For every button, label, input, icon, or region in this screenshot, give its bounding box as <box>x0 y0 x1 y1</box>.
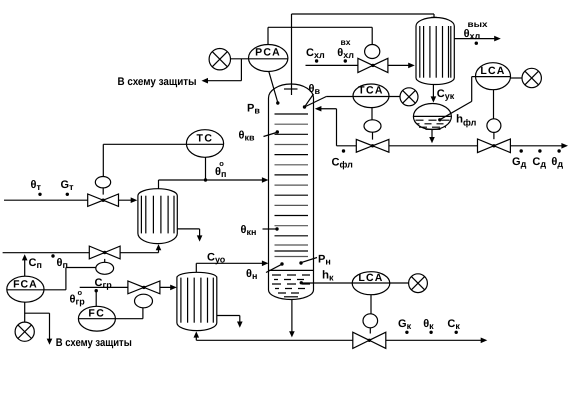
svg-text:ТС: ТС <box>197 133 214 145</box>
wire actuator link <box>102 188 104 195</box>
svg-text:FC: FC <box>88 308 105 320</box>
wire column bottom outlet <box>289 300 295 338</box>
valve Схл (cooling water) <box>358 58 388 72</box>
node dots under theta-т and Gт <box>38 193 69 196</box>
wire FCA output to feed valve actuator <box>44 268 96 290</box>
node Pn dot with leader <box>299 258 317 265</box>
node dot under theta-хл <box>344 59 347 62</box>
instrument TCA (temperature controller bubble) <box>353 84 389 108</box>
wire actuator link <box>369 328 371 334</box>
condenser (overhead heat exchanger) <box>416 18 454 85</box>
column K1 bottom liquid level <box>269 270 313 296</box>
svg-text:LCA: LCA <box>480 65 505 77</box>
wire upper LCA stem to valve actuator <box>493 90 495 119</box>
svg-text:Сп: Сп <box>29 257 42 270</box>
svg-text:о: о <box>219 159 224 168</box>
node theta-kv dot with leader <box>264 130 279 136</box>
actuator of cooling-water valve <box>365 45 380 59</box>
valve Gд (distillate product) <box>478 139 511 153</box>
node dot under вых theta-хл <box>475 42 478 45</box>
valve Gк (bottoms product) <box>353 332 386 348</box>
svg-text:θкн: θкн <box>241 224 257 237</box>
valve theta-т (hot stream) <box>88 194 119 206</box>
svg-text:LCA: LCA <box>358 272 383 284</box>
wire to protection circuit (top) <box>202 59 242 84</box>
wire T1 right drain <box>177 229 202 242</box>
wire reflux return into column <box>315 106 337 146</box>
svg-text:Суо: Суо <box>207 252 226 265</box>
svg-text:Сгр: Сгр <box>95 277 113 290</box>
alarm lamp near FCA <box>15 322 34 341</box>
alarm lamp near TCA <box>400 88 418 106</box>
wire TC measurement stem to feed line <box>205 157 207 180</box>
valve Сп (feed) <box>89 246 120 259</box>
wire preheated feed from T1 top to column <box>159 177 269 189</box>
node hk dot (bottom level tap) <box>300 281 303 284</box>
wire TCA measurement line to theta-v tap <box>306 97 402 107</box>
alarm lamp near bottom LCA <box>409 274 428 293</box>
actuator of distillate valve <box>487 119 501 133</box>
svg-text:Gт: Gт <box>61 179 75 192</box>
wire PCA to Pv tap (diagonal) <box>269 71 278 101</box>
valve Сфл (reflux) <box>356 139 389 152</box>
svg-text:θк: θк <box>423 318 434 331</box>
column K1 (distillation column shell) <box>269 84 314 300</box>
wire bottoms line (column bottom to product) <box>194 331 488 343</box>
wire FCA down to lamp and protection <box>25 302 53 345</box>
instrument FCA (feed flow controller bubble) <box>7 276 44 302</box>
svg-text:Сфл: Сфл <box>332 157 354 170</box>
svg-text:θн: θн <box>246 268 257 281</box>
svg-text:Gд: Gд <box>512 156 527 169</box>
wire upper LCA to drum level tap <box>441 77 476 120</box>
wire T2 right drain <box>217 316 243 328</box>
actuator of heating valve (below) <box>135 294 153 308</box>
svg-text:θв: θв <box>309 83 321 96</box>
wire TC output to hot-stream valve actuator <box>103 144 186 176</box>
heat exchanger T1 (feed preheater) <box>138 189 177 244</box>
wire feed line Сп <box>3 244 162 253</box>
svg-text:θт: θт <box>31 179 42 192</box>
actuator of reflux valve <box>364 120 381 132</box>
instrument LCA (bottom level controller bubble) <box>301 272 409 295</box>
reflux drum (horizontal accumulator) <box>413 104 451 130</box>
instrument LCA (drum level controller bubble) <box>476 63 511 90</box>
node dot before theta-п <box>51 254 54 257</box>
wire overhead vapor line from column top to condenser <box>284 14 437 95</box>
wire heating stream line Сгр <box>80 285 177 291</box>
svg-text:θд: θд <box>551 156 563 169</box>
wire actuator link <box>493 132 495 139</box>
wire condenser bottom outlet Сук <box>431 85 437 103</box>
wire cooling water line Схл <box>306 63 415 69</box>
svg-text:Сд: Сд <box>532 156 546 169</box>
svg-text:В схему защиты: В схему защиты <box>56 337 132 349</box>
node dot under Схл <box>315 59 318 62</box>
svg-text:θхл: θхл <box>337 47 354 60</box>
wire upper LCA lamp link <box>510 77 522 79</box>
wire bottom LCA stem to valve actuator <box>370 295 372 314</box>
svg-text:FCA: FCA <box>13 279 38 291</box>
svg-text:hфл: hфл <box>456 114 477 128</box>
svg-text:Ск: Ск <box>447 318 460 331</box>
heat exchanger T2 (reboiler Суо) <box>177 272 217 330</box>
actuator of hot-stream valve <box>95 177 110 188</box>
svg-text:ТСА: ТСА <box>358 85 384 97</box>
actuator of bottoms valve <box>363 314 378 328</box>
node dots Gд Сд θд <box>520 149 561 152</box>
node junction dot TC on feed line <box>204 178 207 181</box>
wire drum outlet down to product line <box>429 130 435 143</box>
svg-text:о: о <box>78 288 83 297</box>
svg-text:Gк: Gк <box>398 318 412 331</box>
svg-text:hк: hк <box>322 270 334 283</box>
wire hot stream line theta-т <box>4 197 137 203</box>
wire actuator link <box>104 259 106 262</box>
svg-text:вых: вых <box>468 19 488 29</box>
svg-text:θхл: θхл <box>464 28 481 41</box>
wire actuator link <box>372 132 374 139</box>
node hfl dot (drum level tap) <box>438 118 441 121</box>
wire distillate/reflux product line <box>337 143 569 149</box>
wire PCA output to cooling-water valve <box>268 27 372 44</box>
alarm lamp near PCA <box>209 49 230 70</box>
valve Сгр (heating stream) <box>128 281 160 294</box>
wire FC measurement tap to Сгр line <box>95 289 98 306</box>
wire cooled vapor outlet вых <box>454 36 501 42</box>
column K1 trays <box>275 114 309 257</box>
wire reboiler vapor return Суо to column <box>196 261 268 273</box>
svg-text:Схл: Схл <box>306 47 325 60</box>
node theta-kn dot with leader <box>263 227 279 230</box>
svg-text:Рн: Рн <box>318 254 331 267</box>
svg-text:РСА: РСА <box>255 47 281 59</box>
alarm lamp near upper LCA <box>522 68 541 87</box>
svg-text:В схему защиты: В схему защиты <box>118 76 197 88</box>
actuator of feed valve (below) <box>96 262 114 274</box>
instrument PCA (pressure controller bubble) <box>231 45 288 72</box>
wire FC output to heating valve actuator <box>115 308 142 319</box>
svg-text:Рв: Рв <box>247 103 260 116</box>
node dot Сфл <box>342 149 345 152</box>
svg-text:Сук: Сук <box>437 88 455 101</box>
svg-text:вх: вх <box>341 37 351 47</box>
instrument FC (heating flow controller bubble) <box>78 306 115 331</box>
wire FCA measurement up to feed line <box>22 254 28 276</box>
wire TCA stem to valve actuator <box>371 107 373 120</box>
node dots Gк θк Ск <box>405 331 458 334</box>
instrument TC (feed temperature controller bubble) <box>186 130 223 158</box>
svg-text:θкв: θкв <box>239 130 255 143</box>
node theta-v dot (top temperature tap) <box>303 94 314 109</box>
node Pv dot (pressure tap in column top) <box>276 101 279 104</box>
node theta-n dot with leader <box>266 262 284 272</box>
